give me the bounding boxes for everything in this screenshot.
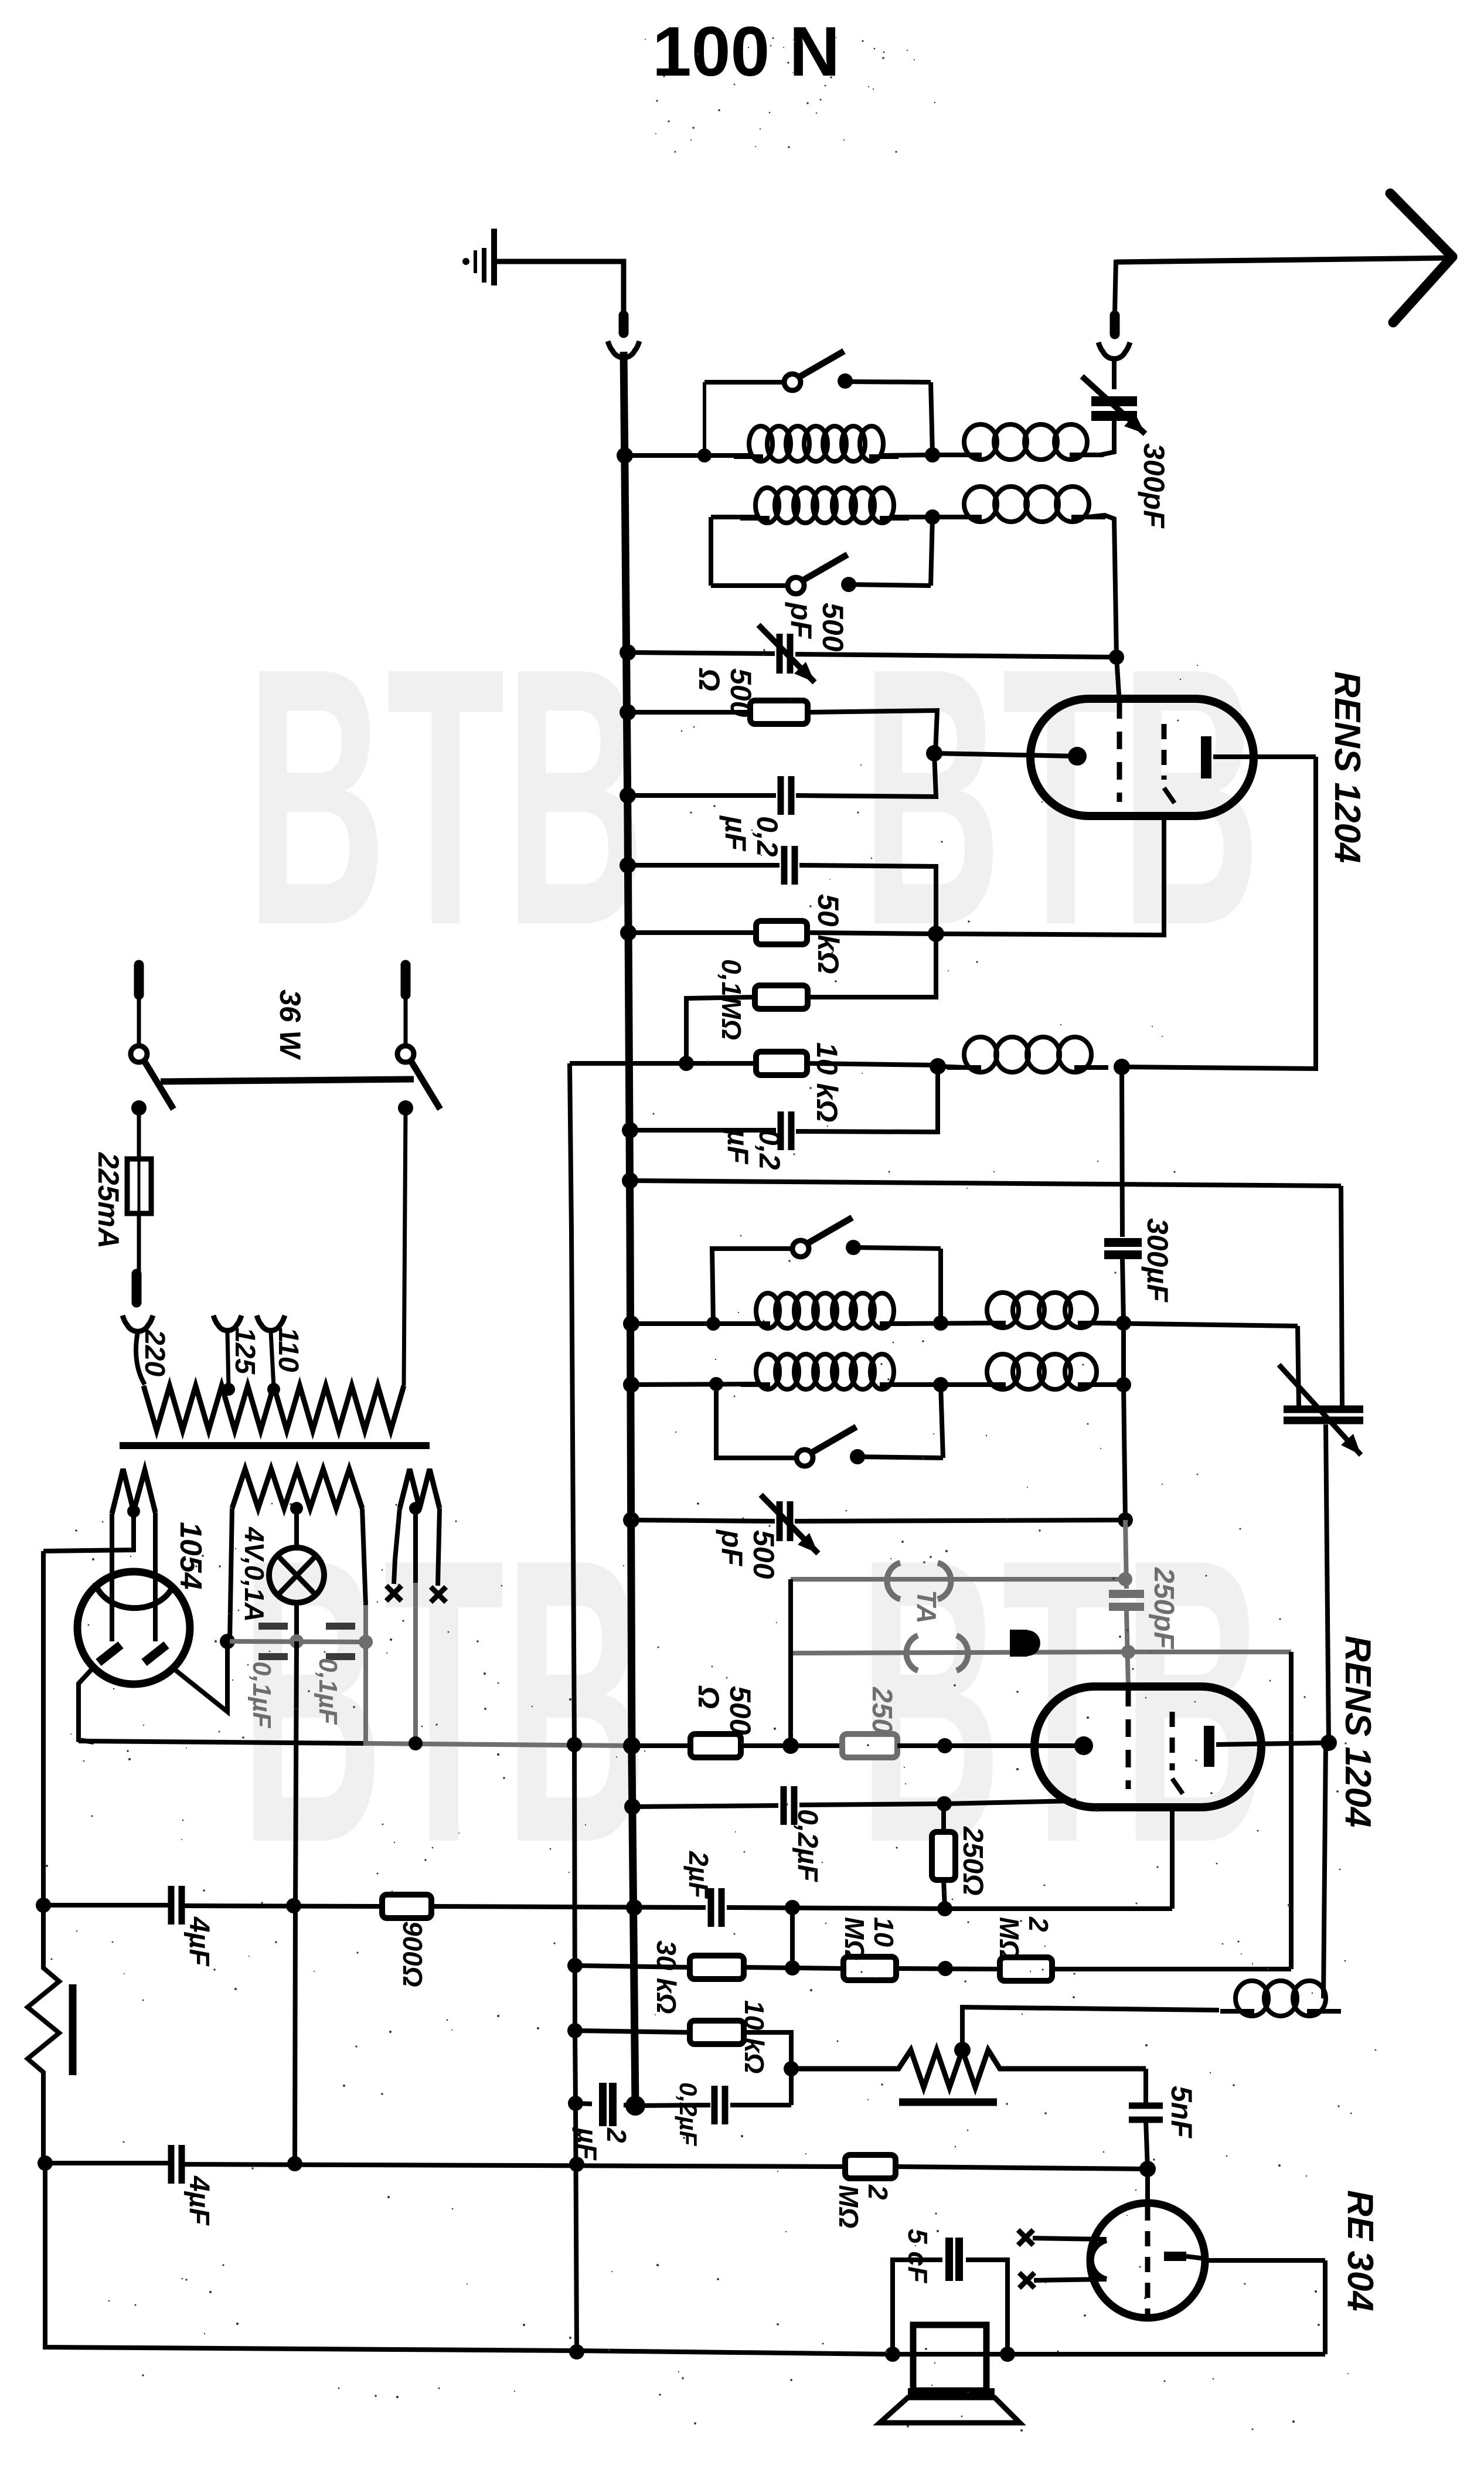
anode V1 [1201,736,1211,778]
jack cup 110 [257,1315,285,1331]
fuse 225mA [127,1159,151,1213]
resistor 50k R2 [756,921,807,944]
capacitor 0.2uF C2 [778,776,784,815]
tube RE 304 V3 envelope [1090,2203,1205,2318]
capacitor 2uF C13 [599,2083,607,2126]
transformer core bar [120,1442,430,1449]
HT secondary winding [112,1469,155,1514]
capacitor 2uF C11 [708,1888,714,1927]
screen lead V1 [936,816,1164,935]
filament RE304 [1091,2240,1107,2279]
svg-text:BTB: BTB [859,1475,1266,1927]
resistor 900 Ohm R8 [382,1895,431,1918]
ground symbol [491,229,497,285]
svg-text:225mA: 225mA [92,1152,125,1249]
anode wire V2 [1216,1743,1329,1745]
svg-text:0,2µF: 0,2µF [721,1128,786,1170]
capacitor 4uF C10 [168,1886,175,1925]
grid tick [1164,788,1175,803]
tube RENS 1204 V2 envelope [1034,1687,1261,1807]
junction row1 mid [925,447,940,463]
capacitor 4uF C15 [168,2145,175,2184]
variable capacitor 500pF C6 [777,1501,783,1541]
bottom return bus [45,2163,1325,2354]
capacitor 0.2uF C4 [778,1111,784,1150]
junction TA [782,1738,799,1754]
wire grid into tube [1117,657,1119,703]
tube RENS 1204 V1 envelope [1030,699,1254,816]
junction on B+ riser [567,1958,583,1973]
resistor 2 MOhm R13 [845,2155,896,2178]
switch S2 [788,577,804,594]
junction on B+ riser [567,2023,583,2038]
antenna plug [1110,315,1120,334]
wire coil to anode V2 [1323,1743,1326,1998]
svg-text:0,1µF: 0,1µF [314,1658,342,1725]
capacitor 0.2uF C3 [781,846,788,885]
5nF coupling [1143,2069,1148,2104]
capacitor 250pF C8 [1125,1520,1126,1589]
resistor 0.1M line [808,934,936,997]
resistor 500 Ohm R5 [690,1734,741,1757]
TA top line [791,1577,1125,1582]
screen grid V2 (dashed) [1170,1712,1175,1770]
svg-text:0,1MΩ: 0,1MΩ [716,959,747,1040]
svg-text:2µF: 2µF [683,1851,714,1899]
bus end junction [625,2096,645,2116]
resistor 2 MOhm R11 [1000,1957,1052,1981]
junction heater line [220,1634,235,1649]
junction [885,2347,900,2362]
switch S3 [792,1240,809,1257]
variable capacitor 500pF C1 [777,634,783,674]
junction at bus [623,1737,641,1755]
wire cathode [934,753,1077,756]
junction pot line [784,2061,799,2076]
antenna arrow [1116,258,1448,262]
junction bus [620,644,636,661]
junction [1000,2347,1015,2362]
earth plug [619,315,629,333]
cathode V1 [1068,747,1087,766]
anode V2 [1204,1726,1214,1767]
tap 110 [267,1383,280,1396]
0.2uF screen bypass [630,1128,776,1133]
svg-text:125: 125 [229,1327,260,1375]
winding right lead [362,1508,366,1605]
center tap wire [43,1511,134,1551]
capacitor 5cF C16 [945,2238,953,2281]
anode wire RE304 [1205,2258,1325,2263]
TA jack cups [887,1563,900,1599]
svg-text:220: 220 [139,1329,170,1376]
svg-text:0,2µF: 0,2µF [675,2082,702,2147]
grid line V2 to bias chain [1128,1650,1291,1654]
wire 0.2uF line2 [628,863,780,868]
junction on B+ riser [568,2096,583,2111]
junction B+ riser end [569,2344,584,2359]
wire switch2 right leg [931,517,932,586]
junction cathode node [926,745,942,761]
wire coil L2 to antenna [1086,437,1114,455]
heater terminal x [431,1587,446,1602]
B+ filament line [79,1741,363,1743]
junction grid node [1109,650,1124,665]
svg-text:5 cF: 5 cF [903,2229,933,2284]
tuning capacitor C7 [1284,1406,1363,1413]
svg-text:0,1µF: 0,1µF [247,1661,276,1729]
capacitor 0,1uF C17 [258,1623,288,1630]
wire bus to row1 [631,1321,758,1326]
wire 500pF to grid [795,654,1117,657]
svg-text:BTB: BTB [240,1475,648,1927]
junction grid RE304 [1139,2161,1156,2177]
svg-text:300µF: 300µF [1141,1218,1174,1303]
svg-text:250Ω: 250Ω [957,1826,988,1896]
wire TA to cathode line [788,1579,793,1746]
wire [711,515,758,519]
antenna jack cup [1098,342,1130,359]
wire [1112,421,1117,453]
junction grid-line RE304 [38,2155,53,2171]
watermark BTB row2 left [240,1475,648,1927]
lamp return lead [295,1641,297,1906]
svg-text:0,2µF: 0,2µF [792,1809,823,1882]
dial lamp [269,1548,324,1603]
resistor 10 MOhm R10 [843,1957,896,1980]
HF choke L5 [964,1037,997,1072]
junction row2 mid [925,509,940,525]
wiper junction [954,2042,971,2058]
wire tuning cap to anode V2 [1326,1424,1329,1743]
speaker cone [908,2388,995,2398]
wire ground line to tuning condenser [630,1181,1341,1186]
wire to cathode line [363,1642,368,1743]
wire [575,1966,690,1967]
primary winding [144,1386,404,1430]
tap 125 [222,1383,235,1396]
anode wire V1 [1213,754,1316,759]
grid tick [1172,1779,1183,1794]
svg-text:10 kΩ: 10 kΩ [739,2000,770,2073]
wire switch2 left leg [709,517,713,586]
resistor 250 Ohm R7 [932,1832,955,1880]
lamp tap [290,1502,303,1515]
filament leads 1054 [79,1668,94,1742]
resistor 10k R4 [756,1052,807,1075]
switch2 line [711,583,788,588]
antenna coil L2 [964,424,997,460]
mains switch right [397,1046,414,1062]
junction anode node [1114,1059,1130,1075]
potentiometer zigzag P1 [791,2050,1146,2087]
svg-text:4µF: 4µF [183,2175,215,2226]
speaker coupling loop [893,2260,942,2354]
wire [845,382,931,382]
svg-text:300pF: 300pF [1138,443,1170,529]
svg-text:RE 304: RE 304 [1340,2190,1380,2311]
resistor 500 Ohm R1 [750,701,808,724]
filament terminal x [1019,2273,1034,2288]
junction at bus [626,1899,642,1916]
jack cup 125 [213,1315,241,1331]
svg-text:900Ω: 900Ω [397,1921,428,1987]
junction [1116,1315,1131,1331]
control grid V1 (dashed) [1117,701,1122,802]
junction B+ riser bottom [569,2157,584,2172]
wire switch1 left leg [703,382,706,455]
4V 0,1A winding [232,1469,362,1508]
svg-text:250pF: 250pF [1148,1567,1179,1650]
winding left lead [230,1508,232,1641]
wire [137,1108,141,1159]
junction [1118,1512,1133,1528]
heater bypass line [230,1641,366,1642]
coil L6 [756,1293,780,1328]
2uF line / screen feed V2 [43,1903,171,1908]
coil L7 [987,1293,1019,1328]
wire 50k line [628,930,756,935]
svg-text:BTB: BTB [246,591,645,1001]
HT center tap [127,1505,140,1518]
svg-text:110: 110 [273,1327,304,1372]
earth jack cup [608,341,639,358]
watermark BTB row1 right [862,591,1261,1001]
capacitor 300pF C5 [1122,1067,1122,1237]
switch link bar [161,1079,414,1082]
secondary coil L4 [964,487,997,522]
grid line RE304 [45,2161,171,2165]
svg-text:0,2µF: 0,2µF [719,815,784,857]
heater lead x1 [394,1508,400,1584]
svg-text:RENS 1204: RENS 1204 [1327,671,1367,863]
pot slider bar [899,2099,997,2106]
voltage divider zigzag [28,1905,59,2163]
plug pin 220 [132,1274,142,1303]
wire switch1 right leg [931,382,932,454]
TA shorting plug [1010,1630,1027,1657]
junction screen feed [930,1058,946,1075]
coil L9 [987,1354,1019,1389]
switch S4 [797,1450,813,1466]
wire 500ohm line [628,710,750,715]
feedback coil L10 [1235,1981,1268,2016]
junction screen node [928,926,944,942]
junction [785,1960,800,1976]
coil L8 [756,1354,780,1389]
filament terminal x [1018,2230,1033,2245]
speaker transformer box [913,2325,986,2391]
contact [398,1100,413,1116]
svg-text:TA: TA [911,1590,942,1624]
svg-text:250: 250 [866,1687,897,1734]
heater winding [400,1469,440,1508]
jack cup 220 [122,1315,153,1331]
divider slider bar [69,1984,77,2075]
svg-text:100 N: 100 N [652,12,840,91]
rectifier leads [110,1514,114,1641]
switch3 line [712,1249,792,1324]
wire bus to coil row1 [625,453,751,458]
junction 250 Ohm top [937,1796,952,1811]
screen lead V2 [1170,1807,1175,1909]
B+ riser vertical [570,1063,577,2352]
switch4 line [716,1384,797,1458]
anode plates 1054 [98,1645,121,1662]
wire [575,2031,690,2032]
switch S1 [784,374,801,390]
watermark BTB row2 right [859,1475,1266,1927]
heater terminal x [386,1586,401,1601]
svg-text:4V,0,1A: 4V,0,1A [239,1526,270,1622]
svg-text:4µF: 4µF [183,1916,215,1967]
junction screen feed V2 [937,1901,952,1916]
antenna down lead [1115,260,1116,313]
junction [785,1900,800,1915]
capacitor 0.2uF C9 [781,1786,787,1825]
anode RE304 [1164,2252,1186,2261]
switch1 line [704,380,784,385]
junction grid coil [1116,1377,1131,1392]
junction grid V2 [1121,1645,1135,1659]
svg-text:5nF: 5nF [1165,2086,1198,2138]
svg-text:10 kΩ: 10 kΩ [811,1042,843,1122]
wire to 2uF line [790,1908,795,1968]
screen grid V1 (dashed) [1162,724,1167,780]
mains pin right [401,965,411,995]
0.2uF cathode bypass line [632,1806,778,1807]
heater lead x2 [438,1508,440,1586]
mains switch left [131,1046,147,1062]
resistor 10k R12 [690,2021,744,2044]
trimmer capacitor 300pF [1091,396,1137,406]
row2 [631,1384,758,1385]
svg-text:36 W: 36 W [274,990,307,1060]
contact [131,1100,147,1116]
junction 0.1M tap [679,1056,694,1071]
main ground bus [624,352,635,2106]
mains pin [134,965,144,995]
junction cathode V2 [937,1738,952,1753]
wire [137,1213,141,1272]
junction lamp lead [286,1898,301,1913]
wire bus to 500pF [628,652,775,654]
control grid V2 (dashed) [1126,1689,1131,1789]
junction [938,1961,953,1976]
cathode V2 [1074,1736,1093,1755]
grid RE304 (dashed) [1145,2205,1151,2314]
junction anode V2 [1320,1735,1337,1751]
regeneration line: anode V2 - coil - wiper [962,2007,1219,2050]
svg-text:RENS 1204: RENS 1204 [1337,1636,1378,1827]
anode choke line [1122,757,1316,1069]
junction row1 left [697,448,712,463]
wire coil L4 to grid [1088,515,1117,657]
junction lamp lead bottom [287,2156,302,2171]
secondary coil L3 [755,488,779,523]
watermark BTB row1 left [246,591,645,1001]
10k screen feed line [570,1061,756,1066]
heater center tap [409,1502,422,1515]
wire 0.2uF line1 [628,793,776,798]
antenna coil L1 [749,426,772,461]
capacitor 0.2uF C14 [712,2086,718,2124]
wire [1112,359,1117,389]
svg-text:50 kΩ: 50 kΩ [812,894,845,974]
resistor 0.1 MOhm R3 [755,985,808,1009]
resistor 250 R6 [842,1734,897,1757]
junction 4uF line [36,1898,51,1913]
junction B+ riser [567,1737,582,1752]
junction cathode line [409,1736,423,1750]
resistor 30k R9 [690,1956,744,1979]
wire [635,2105,710,2106]
junction bus/row1 [617,447,633,464]
rectifier tube 1054 envelope [77,1572,190,1684]
capacitor 5nF C12 [1129,2103,1163,2109]
capacitor 0,1uF C18 [326,1623,355,1630]
TA bottom line [791,1652,1125,1653]
wire ground to bus [494,259,626,264]
wire to transformer [404,1108,406,1386]
left HT rail [41,1551,46,1905]
wire to tuning cap [1298,1326,1299,1407]
